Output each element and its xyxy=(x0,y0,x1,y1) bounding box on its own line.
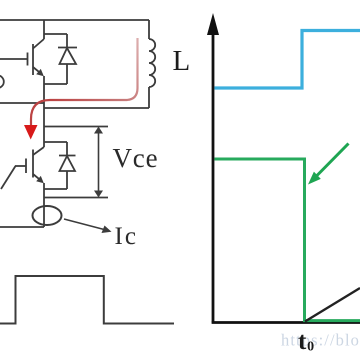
blue Vce waveform xyxy=(215,31,360,89)
gate source circle (upper, cropped at edge) xyxy=(0,75,4,88)
transistor Q2 (lower IGBT) xyxy=(1,147,44,227)
svg-text:Vce: Vce xyxy=(113,143,159,173)
chart Y axis xyxy=(212,30,215,323)
inductor L xyxy=(149,39,155,87)
wire bottom left xyxy=(0,226,44,228)
svg-text:https://blo: https://blo xyxy=(281,331,360,350)
Vce measurement arrow xyxy=(94,127,103,198)
chart Y axis arrowhead xyxy=(207,13,219,35)
Ic label arrow xyxy=(64,219,112,233)
wire left bus at midpoint xyxy=(0,102,44,104)
wire midpoint vertical xyxy=(43,84,45,147)
diode D1 (anti-parallel, upper) xyxy=(44,34,77,84)
red commutation path xyxy=(31,38,138,126)
diode D2 (anti-parallel, lower) xyxy=(44,142,76,189)
Vce reference line top xyxy=(44,126,108,128)
chart X axis xyxy=(212,321,360,324)
green annotation arrowhead xyxy=(308,172,321,185)
current probe ellipse xyxy=(33,206,62,225)
Vce reference line bottom xyxy=(44,197,108,199)
transistor Q1 (upper IGBT) xyxy=(0,20,44,84)
green Ic waveform xyxy=(215,159,360,321)
wire top DC rail xyxy=(0,19,149,21)
green annotation arrow xyxy=(316,144,349,177)
svg-text:L: L xyxy=(173,45,191,77)
wire right bus upper segment xyxy=(148,20,150,39)
black diagonal current ramp xyxy=(305,288,360,322)
svg-text:Ic: Ic xyxy=(115,223,138,250)
wire load bottom (midpoint to inductor) xyxy=(44,107,149,109)
red arrowhead xyxy=(24,125,38,140)
wire right bus lower segment xyxy=(148,87,150,108)
gate pulse waveform xyxy=(0,276,174,324)
